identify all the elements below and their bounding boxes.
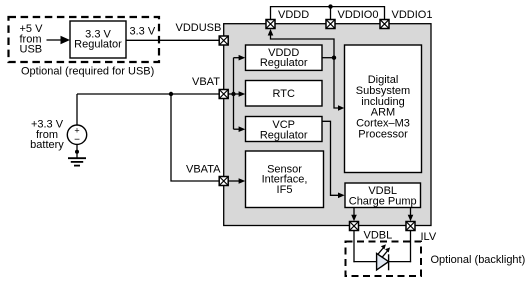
wire VDBL pin down to LED — [353, 231, 355, 263]
svg-text:Optional (required for USB): Optional (required for USB) — [21, 66, 154, 78]
battery V1 +3.3V source — [76, 94, 78, 125]
feed arrow into RTC — [229, 93, 240, 95]
pin VBAT — [219, 90, 228, 99]
pin VDDUSB — [219, 36, 228, 45]
svg-text:VDDIO0: VDDIO0 — [338, 9, 379, 21]
box RTC — [246, 81, 323, 107]
wire charge pump down to ILV pin (arrow down) — [410, 208, 412, 216]
svg-text:Charge Pump: Charge Pump — [349, 195, 417, 207]
wire VDDD junction down into Digital Subsystem (arrow) — [334, 58, 339, 108]
pin ILV — [406, 222, 415, 231]
wire VDDD regulator output to junction — [322, 57, 334, 59]
wire junction down to VBATA pin — [171, 94, 219, 181]
svg-text:−: − — [74, 135, 80, 146]
wire junction up-left to VDDD pin (arrow up) — [271, 34, 335, 58]
svg-text:USB: USB — [20, 44, 43, 56]
pin VBATA — [219, 177, 228, 186]
LED emission arrow 2 — [382, 251, 387, 257]
dashed box: optional USB regulator — [9, 17, 160, 62]
svg-text:VDDD: VDDD — [278, 9, 309, 21]
arrow from +5V label into regulator — [47, 39, 62, 41]
svg-text:RTC: RTC — [272, 88, 294, 100]
junction dot on VBAT wire — [169, 92, 173, 96]
feed arrow into VDDD regulator — [234, 57, 240, 59]
svg-text:VDBL: VDBL — [364, 230, 393, 242]
svg-text:VDDIO1: VDDIO1 — [392, 9, 433, 21]
box VDDD Regulator — [246, 45, 323, 70]
wire VCP regulator output to charge pump (arrow) — [322, 121, 339, 195]
wire regulator output to VDDUSB pin — [126, 39, 219, 41]
feed arrow VBATA into sensor interface — [229, 180, 240, 182]
LED emission arrow 1 — [378, 248, 383, 254]
pin VDDIO1 — [380, 20, 389, 29]
wire charge pump down to VDBL pin (arrow down) — [353, 208, 355, 216]
wire ILV pin down to LED — [410, 231, 412, 263]
svg-text:3.3 V: 3.3 V — [130, 26, 156, 38]
svg-text:VDDUSB: VDDUSB — [176, 22, 222, 34]
LED D1 backlight — [377, 253, 389, 270]
regulator U1 3.3V box — [70, 21, 126, 58]
svg-text:ILV: ILV — [421, 231, 437, 243]
svg-text:VBATA: VBATA — [186, 164, 221, 176]
wire battery to VBAT pin — [77, 93, 219, 95]
wire LED anode — [353, 261, 376, 263]
wire rail drop to VDDIO0 — [330, 7, 332, 20]
svg-text:Processor: Processor — [358, 129, 408, 141]
pin VDBL — [350, 222, 359, 231]
pin VDDIO0 — [326, 20, 335, 29]
junction dot on top rail — [328, 4, 332, 8]
wire LED cathode — [389, 261, 412, 263]
box VCP Regulator — [246, 117, 323, 142]
svg-text:IF5: IF5 — [277, 184, 293, 196]
feed arrow into VCP regulator — [234, 128, 240, 130]
top external rail VDDD-VDDIO0-VDDIO1 — [271, 7, 385, 20]
internal bus vertical (VBAT distribution) — [233, 58, 235, 130]
svg-text:Regulator: Regulator — [260, 129, 308, 141]
svg-text:Regulator: Regulator — [260, 57, 308, 69]
box VDBL Charge Pump — [345, 183, 421, 208]
junction dot VDDD output — [332, 56, 336, 60]
svg-text:Regulator: Regulator — [74, 39, 122, 51]
ground — [68, 157, 86, 159]
IC block body (shaded) — [224, 24, 431, 226]
box Digital Subsystem — [345, 45, 422, 173]
svg-text:battery: battery — [30, 139, 64, 151]
svg-text:VBAT: VBAT — [192, 76, 220, 88]
junction dot below battery — [75, 150, 79, 154]
svg-text:Optional (backlight): Optional (backlight) — [431, 254, 526, 266]
box Sensor Interface IF5 — [246, 151, 324, 208]
junction dot VBAT bus — [231, 92, 235, 96]
dashed box: optional backlight — [346, 242, 422, 277]
pin VDDD — [266, 20, 275, 29]
